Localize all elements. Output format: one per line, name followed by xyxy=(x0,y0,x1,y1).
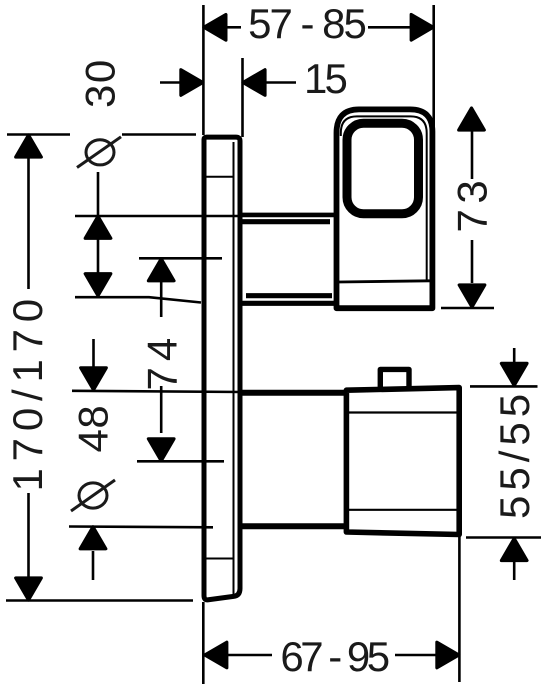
svg-text:74: 74 xyxy=(139,332,186,391)
handle skirt line xyxy=(339,281,431,282)
dimension 67-95 line left segment xyxy=(228,654,272,657)
arrow O30 top (points up) xyxy=(85,216,111,238)
extension line top of plate (y=134.5) left part xyxy=(7,133,70,136)
handle stem bottom edge xyxy=(246,293,332,298)
svg-text:170/170: 170/170 xyxy=(4,292,51,491)
knob stem top edge xyxy=(242,390,347,396)
handle inner contour thin line xyxy=(341,116,427,281)
svg-text:67 - 95: 67 - 95 xyxy=(280,633,388,680)
dimension 74 top extension line (y=258.3) xyxy=(139,257,222,260)
extension line left of 67-95 (x=203.3) xyxy=(202,602,205,684)
extension line right of 67-95 (x=459.4 from knob) xyxy=(458,536,461,682)
svg-text:30: 30 xyxy=(77,58,124,108)
dimension 55/55 lower stem xyxy=(513,561,516,580)
knob body outline xyxy=(346,388,459,535)
arrow 67-95 right xyxy=(437,642,459,668)
arrow 170/170 bottom (points down) xyxy=(16,578,42,600)
extension line bottom of plate (y=600.5) xyxy=(6,599,193,602)
escutcheon plate outer outline xyxy=(204,137,240,600)
handle stem top second line xyxy=(241,219,330,224)
dimension 170/170 line lower segment xyxy=(27,493,30,577)
O48 top reference line (y=390.8) xyxy=(72,391,243,392)
arrow O30 bottom (points down) xyxy=(85,274,111,296)
73 bottom extension line (y=308) xyxy=(441,307,494,310)
dimension 73 line lower segment xyxy=(471,240,474,283)
dimension 74 line upper segment xyxy=(160,282,163,317)
O48 bottom reference line (y=525.8) xyxy=(69,525,213,528)
55/55 top extension line (y=386.4) xyxy=(470,385,538,388)
dimension O48 lower tail xyxy=(92,551,95,580)
dimension O48 leader upper xyxy=(92,339,95,367)
arrow 74 top (points up) xyxy=(148,259,174,281)
O30 bottom reference line slanted xyxy=(75,297,201,302)
extension line top of plate (y=134.5) right part xyxy=(122,133,196,136)
arrow 15 left (points right) xyxy=(181,70,203,96)
arrow 15 right (points left) xyxy=(243,70,265,96)
arrow O48 bottom (points up onto line) xyxy=(80,527,106,549)
arrow 57-85 left xyxy=(204,14,226,40)
arrow 74 bottom (points down) xyxy=(148,439,174,461)
knob interior line upper xyxy=(348,411,457,413)
dimension 15 left tail xyxy=(160,81,181,84)
55/55 bottom extension line (y=537.5) xyxy=(466,536,541,539)
arrow O48 top (points down onto line) xyxy=(81,368,107,390)
arrow 57-85 right xyxy=(411,14,433,40)
handle outer outline xyxy=(337,109,433,308)
arrow 73 bottom (points down) xyxy=(459,285,485,307)
arrow 55/55 top (points down) xyxy=(501,363,527,385)
dimension 74 line lower segment xyxy=(160,386,163,433)
diameter symbol for 48 xyxy=(71,480,115,511)
knob interior line lower xyxy=(348,509,457,511)
dimension 57-85 line right segment xyxy=(368,26,411,29)
svg-text:48: 48 xyxy=(70,405,117,453)
dimension 74 bottom extension line (y=461.3) xyxy=(137,460,224,463)
dimension O30 line between arrows xyxy=(97,239,100,273)
arrow 55/55 bottom (points up) xyxy=(501,539,527,561)
svg-text:15: 15 xyxy=(304,55,347,102)
knob tab xyxy=(380,369,409,388)
plate lower inner line xyxy=(205,558,233,560)
handle hole ring xyxy=(347,123,419,214)
extension line right of 57-85 (x=433.7) xyxy=(432,5,435,130)
dimension 55/55 upper stem xyxy=(513,348,516,362)
dimension 15 right tail xyxy=(265,81,296,84)
dimension 57-85 line left segment xyxy=(227,26,241,29)
dimension O30 leader from label xyxy=(97,172,100,216)
O30 top reference line (stem top, thin part) xyxy=(75,215,336,218)
handle stem bottom second line xyxy=(240,301,335,306)
plate upper inner line xyxy=(205,176,233,178)
diameter symbol for 30 xyxy=(77,137,121,168)
svg-text:55/55: 55/55 xyxy=(491,389,538,519)
dimension 170/170 line upper segment xyxy=(27,158,30,289)
handle stem top edge xyxy=(240,213,335,217)
dimension 67-95 line right segment xyxy=(395,654,436,657)
arrow 170/170 top (points up) xyxy=(16,135,42,157)
extension line for 15 (x=242.5) xyxy=(241,58,244,137)
svg-text:73: 73 xyxy=(449,175,496,233)
arrow 73 top (points up) xyxy=(459,108,485,130)
plate inner face line xyxy=(233,142,235,594)
knob stem bottom edge xyxy=(242,523,347,529)
dimension 73 line upper segment xyxy=(471,131,474,179)
extension line left of 57-85 (x=203.4) xyxy=(202,5,205,135)
arrow 67-95 left xyxy=(205,642,227,668)
svg-text:57 - 85: 57 - 85 xyxy=(248,0,365,47)
